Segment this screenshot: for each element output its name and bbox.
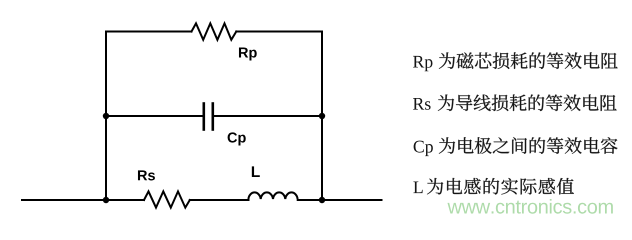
wire bottom rail left segment bbox=[22, 199, 144, 201]
label Cp bbox=[228, 132, 237, 142]
wire top-right segment bbox=[236, 31, 322, 33]
resistor Rs bbox=[144, 191, 190, 207]
label L bbox=[252, 166, 260, 177]
wire bottom rail middle segment bbox=[190, 199, 249, 201]
wire bottom rail right segment bbox=[298, 199, 382, 201]
junction node left-middle bbox=[103, 113, 109, 119]
resistor Rp bbox=[192, 23, 237, 39]
watermark www.cntronics.com bbox=[447, 199, 612, 214]
label Rp bbox=[239, 48, 248, 58]
inductor L bbox=[248, 192, 297, 199]
capacitor Cp bbox=[204, 104, 213, 130]
annotation line 1: Rp definition bbox=[413, 52, 618, 71]
junction node left-bottom bbox=[103, 197, 109, 203]
junction node right-middle bbox=[319, 113, 325, 119]
junction node right-bottom bbox=[319, 197, 325, 203]
annotation line 3: Cp definition bbox=[414, 137, 618, 156]
annotation line 4: L definition bbox=[413, 178, 574, 195]
annotation line 2: Rs definition bbox=[413, 94, 617, 111]
wire right vertical bbox=[321, 32, 323, 201]
wire top-left segment bbox=[106, 31, 192, 33]
wire middle-right segment bbox=[214, 115, 322, 117]
wire left vertical bbox=[105, 32, 107, 201]
label Rs bbox=[138, 170, 147, 180]
wire middle-left segment bbox=[106, 115, 203, 117]
